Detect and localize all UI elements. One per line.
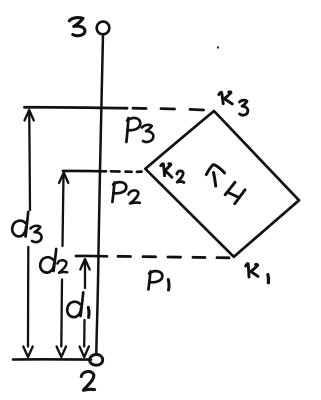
dimension d3: lower segment and down arrowhead at baseline bbox=[23, 247, 32, 357]
dimension d2: lower segment and down arrowhead at baseline bbox=[57, 280, 66, 358]
wire: P2 solid horizontal line bbox=[63, 170, 106, 173]
wire: P3 dashed line to K3 bbox=[133, 108, 204, 110]
label d1 bbox=[67, 293, 89, 318]
wire: P1 solid horizontal line bbox=[76, 255, 107, 258]
wire: P2 dashed line to K2 bbox=[111, 170, 142, 173]
label P2 bbox=[112, 182, 139, 203]
stray ink dot bbox=[217, 46, 219, 48]
label P1 bbox=[148, 271, 169, 290]
label K1 bbox=[246, 264, 269, 283]
dimension d1: up arrowhead at P1 bbox=[80, 259, 89, 288]
rectangle KH (rotated) bbox=[145, 111, 299, 257]
dimension d3: up arrowhead at P3 bbox=[25, 110, 34, 210]
node 3 terminal circle bbox=[97, 22, 110, 35]
label K3 bbox=[219, 92, 248, 115]
label 2 bbox=[81, 371, 94, 390]
wire: P3 solid horizontal line bbox=[25, 106, 128, 110]
dimension d2: up arrowhead at P2 bbox=[59, 173, 68, 247]
label KH (inside rectangle, rotated) bbox=[206, 165, 245, 204]
label d2 bbox=[40, 249, 67, 273]
label 3 bbox=[69, 18, 85, 36]
label P3 bbox=[126, 118, 153, 142]
dimension d1: lower segment and down arrowhead at baseline bbox=[80, 320, 89, 357]
wire: P1 dashed line to K1 bbox=[118, 256, 229, 258]
baseline at node 2 level bbox=[13, 358, 91, 361]
label d3 bbox=[12, 212, 41, 242]
label K2 bbox=[161, 164, 184, 183]
wire: main vertical line from node 3 to node 2 bbox=[96, 35, 103, 355]
node 2 terminal circle bbox=[90, 354, 103, 365]
